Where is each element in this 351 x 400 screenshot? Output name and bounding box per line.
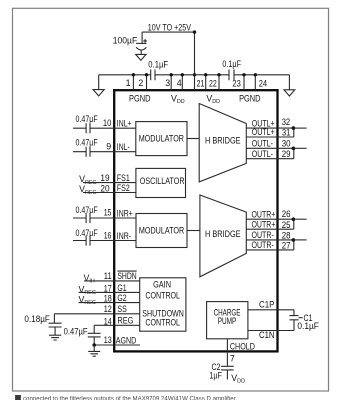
node dot OUTR+ <box>292 217 296 221</box>
wire bracket 26-25 <box>293 219 295 229</box>
svg-text:SHDN: SHDN <box>117 271 136 281</box>
wire C1N <box>248 330 294 332</box>
svg-text:100µF: 100µF <box>113 36 138 46</box>
svg-text:31: 31 <box>282 128 290 138</box>
svg-text:23: 23 <box>232 79 240 89</box>
svg-text:MODULATOR: MODULATOR <box>139 225 184 236</box>
wire FS2 <box>83 192 136 194</box>
svg-text:25: 25 <box>282 220 291 230</box>
ground earth below CSS <box>49 335 61 340</box>
svg-text:0.1µF: 0.1µF <box>148 60 168 70</box>
capacitor CREG 0.47uF <box>88 325 101 345</box>
svg-text:0.47µF: 0.47µF <box>76 228 99 238</box>
capacitor C1 <box>290 316 299 331</box>
block GAIN CONTROL / SHUTDOWN CONTROL <box>140 278 186 331</box>
svg-text:26: 26 <box>282 209 291 219</box>
capacitor CINL+ <box>73 123 114 133</box>
svg-text:19: 19 <box>100 173 109 183</box>
svg-text:GAIN: GAIN <box>153 279 171 290</box>
overline SHDN <box>117 270 136 272</box>
wire OUTR+ output stub <box>293 218 306 220</box>
wire SS to cap <box>54 313 139 315</box>
svg-text:CONTROL: CONTROL <box>145 289 180 300</box>
wire C1P <box>248 309 294 311</box>
svg-text:INR+: INR+ <box>117 208 133 218</box>
IC body U1 MAX9709 <box>114 90 277 351</box>
node rail junction dot <box>193 73 196 76</box>
tick to C1 label <box>299 317 303 319</box>
svg-text:28: 28 <box>282 231 291 241</box>
svg-text:OUTL-: OUTL- <box>252 139 273 149</box>
svg-text:PGND: PGND <box>239 93 260 103</box>
wire supply vertical drop to rail <box>194 32 196 90</box>
svg-text:2: 2 <box>138 78 143 88</box>
svg-text:10V TO +25V: 10V TO +25V <box>148 22 192 33</box>
wire bracket 32-31 <box>293 128 295 137</box>
block MODULATOR left channel <box>136 122 187 156</box>
svg-text:connected to the filterless ou: connected to the filterless outputs of t… <box>23 395 237 400</box>
node dot OUTR- <box>292 238 296 242</box>
svg-text:CHOLD: CHOLD <box>230 341 255 351</box>
svg-text:OUTR-: OUTR- <box>252 240 274 250</box>
capacitor CSS 0.18uF <box>49 314 62 335</box>
caption square <box>15 395 21 400</box>
svg-text:24: 24 <box>259 79 267 89</box>
svg-text:OUTR+: OUTR+ <box>252 219 276 229</box>
svg-text:20: 20 <box>100 183 109 193</box>
node supply corner dot <box>193 30 196 33</box>
wire modulator1 to H bridge1 <box>187 138 199 140</box>
wire OUTL+ pin31 <box>246 136 293 138</box>
wire OUTR- pin27 <box>246 249 293 251</box>
svg-text:FS1: FS1 <box>117 173 130 183</box>
svg-text:OSCILLATOR: OSCILLATOR <box>140 175 185 186</box>
svg-text:H BRIDGE: H BRIDGE <box>205 134 241 145</box>
wire supply horizontal <box>142 31 194 33</box>
ground arrow left end of rail <box>98 75 100 90</box>
wire OUTL+ output stub <box>293 127 306 129</box>
wire G1 <box>79 291 140 293</box>
svg-text:21: 21 <box>197 78 205 88</box>
svg-text:1µF: 1µF <box>209 371 222 381</box>
svg-text:FS2: FS2 <box>117 183 130 193</box>
svg-text:C1P: C1P <box>259 299 275 309</box>
amplifier H BRIDGE right trapezoid <box>200 195 246 277</box>
pin numbers 32 31 30 29 <box>282 117 291 159</box>
svg-text:0.18µF: 0.18µF <box>24 314 50 324</box>
svg-text:0.47µF: 0.47µF <box>64 326 89 336</box>
wire bracket 30-29 <box>293 148 295 158</box>
wire AGND to ground <box>93 345 95 351</box>
svg-text:0.47µF: 0.47µF <box>76 138 99 148</box>
svg-text:15: 15 <box>104 208 112 218</box>
node dot AGND junction <box>92 343 96 347</box>
svg-text:INL-: INL- <box>117 142 130 152</box>
wire modulator2 to H bridge2 <box>187 230 200 232</box>
wire bracket 28-27 <box>293 240 295 250</box>
svg-text:REG: REG <box>117 315 133 325</box>
svg-text:OUTL+: OUTL+ <box>252 127 275 137</box>
net labels PGND VDD VDD PGND <box>129 93 261 105</box>
svg-text:SS: SS <box>117 304 126 314</box>
svg-text:7: 7 <box>230 354 235 364</box>
wire OUTL- pin29 <box>246 158 293 160</box>
svg-text:PGND: PGND <box>129 93 151 103</box>
wire INL+ to modulator <box>114 127 136 129</box>
wire CHOLD from charge pump <box>226 339 228 367</box>
ground arrow below 100uF <box>136 54 146 60</box>
svg-text:27: 27 <box>282 240 291 250</box>
svg-text:32: 32 <box>282 117 291 127</box>
svg-text:0.47µF: 0.47µF <box>76 205 99 215</box>
node dot OUTL- <box>292 147 296 151</box>
svg-text:H BRIDGE: H BRIDGE <box>205 228 241 239</box>
pin numbers 1 2 3 4 21 22 23 24 <box>126 78 268 89</box>
svg-text:AGND: AGND <box>116 335 137 345</box>
wire top rail PGND/VDD bus <box>99 74 151 76</box>
node dot OUTL+ <box>292 126 296 130</box>
amplifier H BRIDGE left trapezoid <box>199 104 246 182</box>
capacitor C-bulk 100uF polarized <box>136 32 147 54</box>
svg-text:4: 4 <box>177 78 182 88</box>
svg-text:9: 9 <box>106 142 111 152</box>
pin names OUTR <box>252 209 276 250</box>
svg-text:CONTROL: CONTROL <box>145 316 180 327</box>
pin stubs pins 1 2 3 4 21 22 23 24 <box>133 75 255 90</box>
wire INL- to modulator <box>114 151 136 153</box>
svg-text:0.47µF: 0.47µF <box>76 114 99 124</box>
svg-text:C1N: C1N <box>259 330 275 340</box>
svg-text:INR-: INR- <box>117 231 131 241</box>
wire FS1 <box>83 182 136 184</box>
svg-text:16: 16 <box>104 231 112 241</box>
svg-text:OUTL-: OUTL- <box>252 149 273 159</box>
wire OUTR+ pin25 <box>246 228 293 230</box>
svg-text:INL+: INL+ <box>117 119 132 129</box>
capacitor CINR- <box>73 236 114 246</box>
ground earth below AGND <box>88 351 100 356</box>
capacitor CINL- <box>73 147 114 157</box>
svg-text:22: 22 <box>209 78 217 88</box>
wire INR- to modulator <box>114 240 136 242</box>
svg-text:1: 1 <box>126 78 131 88</box>
wire OUTR+ pin26 <box>246 218 293 220</box>
capacitor C-bypass right plates <box>229 70 234 81</box>
wire OUTL- pin30 <box>246 147 293 149</box>
node dots on rail <box>132 73 257 76</box>
svg-text:13: 13 <box>104 335 112 345</box>
svg-text:MODULATOR: MODULATOR <box>139 132 184 143</box>
capacitor CINR+ <box>73 213 114 223</box>
svg-text:0.1µF: 0.1µF <box>222 59 241 69</box>
svg-text:12: 12 <box>104 304 112 314</box>
pin numbers 26 25 28 27 <box>282 209 291 250</box>
svg-text:29: 29 <box>282 149 291 159</box>
block OSCILLATOR <box>136 168 186 197</box>
svg-text:PUMP: PUMP <box>218 315 237 326</box>
ground arrow right end of rail <box>288 75 290 90</box>
wire SHDN <box>84 280 140 282</box>
wire OUTL- output stub <box>293 147 306 149</box>
svg-text:10: 10 <box>103 118 112 128</box>
wire AGND <box>94 344 140 346</box>
wire REG to cap <box>94 324 140 326</box>
svg-text:30: 30 <box>282 138 291 148</box>
svg-text:11: 11 <box>104 271 112 281</box>
svg-text:3: 3 <box>165 78 170 88</box>
block MODULATOR right channel <box>136 214 187 248</box>
wire INR+ to modulator <box>114 217 136 219</box>
capacitor C-bypass left plates <box>151 70 155 81</box>
wire G2 <box>79 302 140 304</box>
svg-text:OUTR+: OUTR+ <box>252 209 276 219</box>
wire OUTR- pin28 <box>246 239 293 241</box>
svg-text:0.1µF: 0.1µF <box>297 321 319 331</box>
svg-text:G2: G2 <box>117 293 126 303</box>
wire OUTL+ pin32 <box>246 127 293 129</box>
svg-text:G1: G1 <box>117 283 126 293</box>
svg-text:OUTR-: OUTR- <box>252 230 274 240</box>
wire C1P down to C1 <box>293 310 295 316</box>
block CHARGE PUMP <box>207 302 248 339</box>
wire OUTR- output stub <box>293 239 306 241</box>
pin names OUTL <box>252 118 275 159</box>
capacitor C2 1uF <box>221 366 234 379</box>
